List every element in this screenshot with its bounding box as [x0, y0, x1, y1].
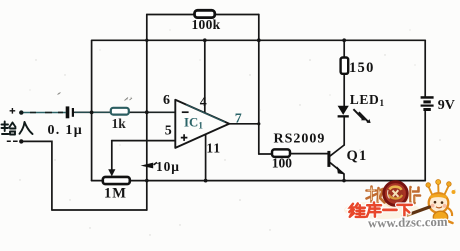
op-amp minus sign — [182, 111, 189, 113]
resistor 1k box — [111, 108, 129, 115]
wire pin11 to ground — [205, 134, 207, 181]
wire minus input lead — [22, 141, 52, 210]
svg-text:150: 150 — [349, 60, 375, 76]
wire pot left lead — [92, 180, 103, 182]
wire 100k feedback loop top — [147, 14, 259, 16]
node junction output drop on rail — [257, 38, 261, 42]
node input plus terminal dot — [19, 110, 23, 114]
node junction output pin7 — [257, 122, 260, 125]
wire +9V rail — [92, 39, 425, 41]
terminal plus sign — [10, 108, 16, 114]
watermark mascot head — [429, 193, 449, 213]
wire loop right drop / output vertical — [258, 15, 260, 155]
terminal minus dashes — [7, 140, 18, 142]
wire pot wiper drop — [111, 141, 113, 170]
label input chinese shuru — [2, 122, 33, 135]
svg-text:0. 1μ: 0. 1μ — [48, 123, 83, 138]
wire rail left drop to 1M pot left — [91, 40, 93, 180]
LED LED1 light arrows — [353, 109, 368, 122]
wire output pin7 — [229, 123, 259, 125]
svg-text:10μ: 10μ — [156, 159, 180, 174]
node junction pin4 on rail — [203, 38, 207, 42]
capacitor 10u electrolytic — [141, 163, 154, 169]
svg-text:1M: 1M — [104, 186, 127, 202]
svg-text:Q1: Q1 — [347, 148, 368, 164]
watermark mascot leg — [435, 221, 453, 227]
svg-text:1k: 1k — [112, 116, 127, 131]
watermark weiku yixia red text — [349, 203, 411, 218]
svg-text:9V: 9V — [438, 98, 455, 113]
svg-text:100k: 100k — [192, 17, 221, 32]
svg-text:11: 11 — [206, 140, 221, 155]
wire pin5 line — [112, 140, 176, 142]
wire Q1 collector diagonal — [330, 145, 344, 156]
wire input signal teal segment — [22, 112, 66, 114]
potentiometer wiper arrow — [108, 169, 115, 176]
watermark zhao char — [367, 187, 385, 205]
resistor 100k box — [195, 10, 215, 17]
resistor 150 box — [341, 58, 349, 74]
node junction 150 branch on rail — [342, 38, 346, 42]
transistor Q1 base bar — [327, 151, 330, 167]
LED LED1 triangle — [338, 106, 349, 115]
wire ground rail — [130, 180, 425, 182]
wire bottom link from minus terminal to ground — [52, 209, 147, 211]
wire base lead to 100 resistor — [259, 153, 272, 155]
watermark weiku yixia red text halo — [349, 203, 411, 218]
wire loop left drop / pin6 node vertical x=146.8 — [146, 15, 148, 211]
op-amp IC1 triangle — [175, 100, 229, 148]
wire Q1 emitter diagonal — [330, 163, 344, 174]
scan tick artifacts — [125, 98, 133, 101]
resistor 100 box — [272, 149, 290, 157]
node junction loop drop on rail — [145, 39, 148, 42]
wire rail to 150 resistor — [343, 40, 345, 57]
svg-text:100: 100 — [272, 156, 293, 171]
wire Q1 emitter to ground — [343, 174, 345, 181]
op-amp plus sign — [181, 134, 188, 141]
wire battery top lead — [424, 40, 426, 96]
svg-text:RS2009: RS2009 — [274, 132, 326, 147]
watermark circle logo — [384, 182, 408, 206]
svg-text:7: 7 — [235, 111, 242, 126]
node junction pin11 on ground — [204, 179, 208, 183]
svg-text:5: 5 — [165, 123, 172, 138]
watermark mascot arm brush — [406, 207, 430, 216]
watermark pian char — [411, 187, 421, 203]
wire input signal line black part — [75, 111, 176, 113]
transistor Q1 emitter arrowhead — [337, 166, 345, 174]
wire battery bottom lead — [424, 111, 426, 181]
wire 150 to LED — [343, 74, 345, 106]
svg-text:6: 6 — [163, 93, 170, 108]
svg-text:www.dzsc.com: www.dzsc.com — [368, 215, 448, 231]
svg-text:4: 4 — [200, 95, 207, 110]
watermark dzsc group — [344, 180, 456, 231]
wire LED to Q1 collector — [343, 118, 345, 146]
watermark mascot crown — [429, 184, 449, 196]
scan speckle noise — [19, 29, 455, 235]
node junction rail-left x signal — [90, 111, 94, 115]
node junction pin6 node on signal line — [145, 110, 149, 114]
node junction emitter on ground — [342, 179, 346, 183]
watermark glow — [382, 181, 409, 208]
capacitor C 0.1u plates — [66, 106, 70, 118]
LED LED1 cathode bar — [338, 115, 349, 117]
potentiometer 1M box — [103, 177, 130, 184]
node junction ground x pin6 vertical — [145, 179, 149, 183]
battery B1 9V plates — [421, 96, 434, 99]
node input minus terminal dot — [19, 139, 23, 143]
wire pin4 to rail — [204, 40, 206, 113]
watermark mascot body — [433, 211, 447, 223]
wire 100 resistor to Q1 base — [290, 153, 328, 155]
